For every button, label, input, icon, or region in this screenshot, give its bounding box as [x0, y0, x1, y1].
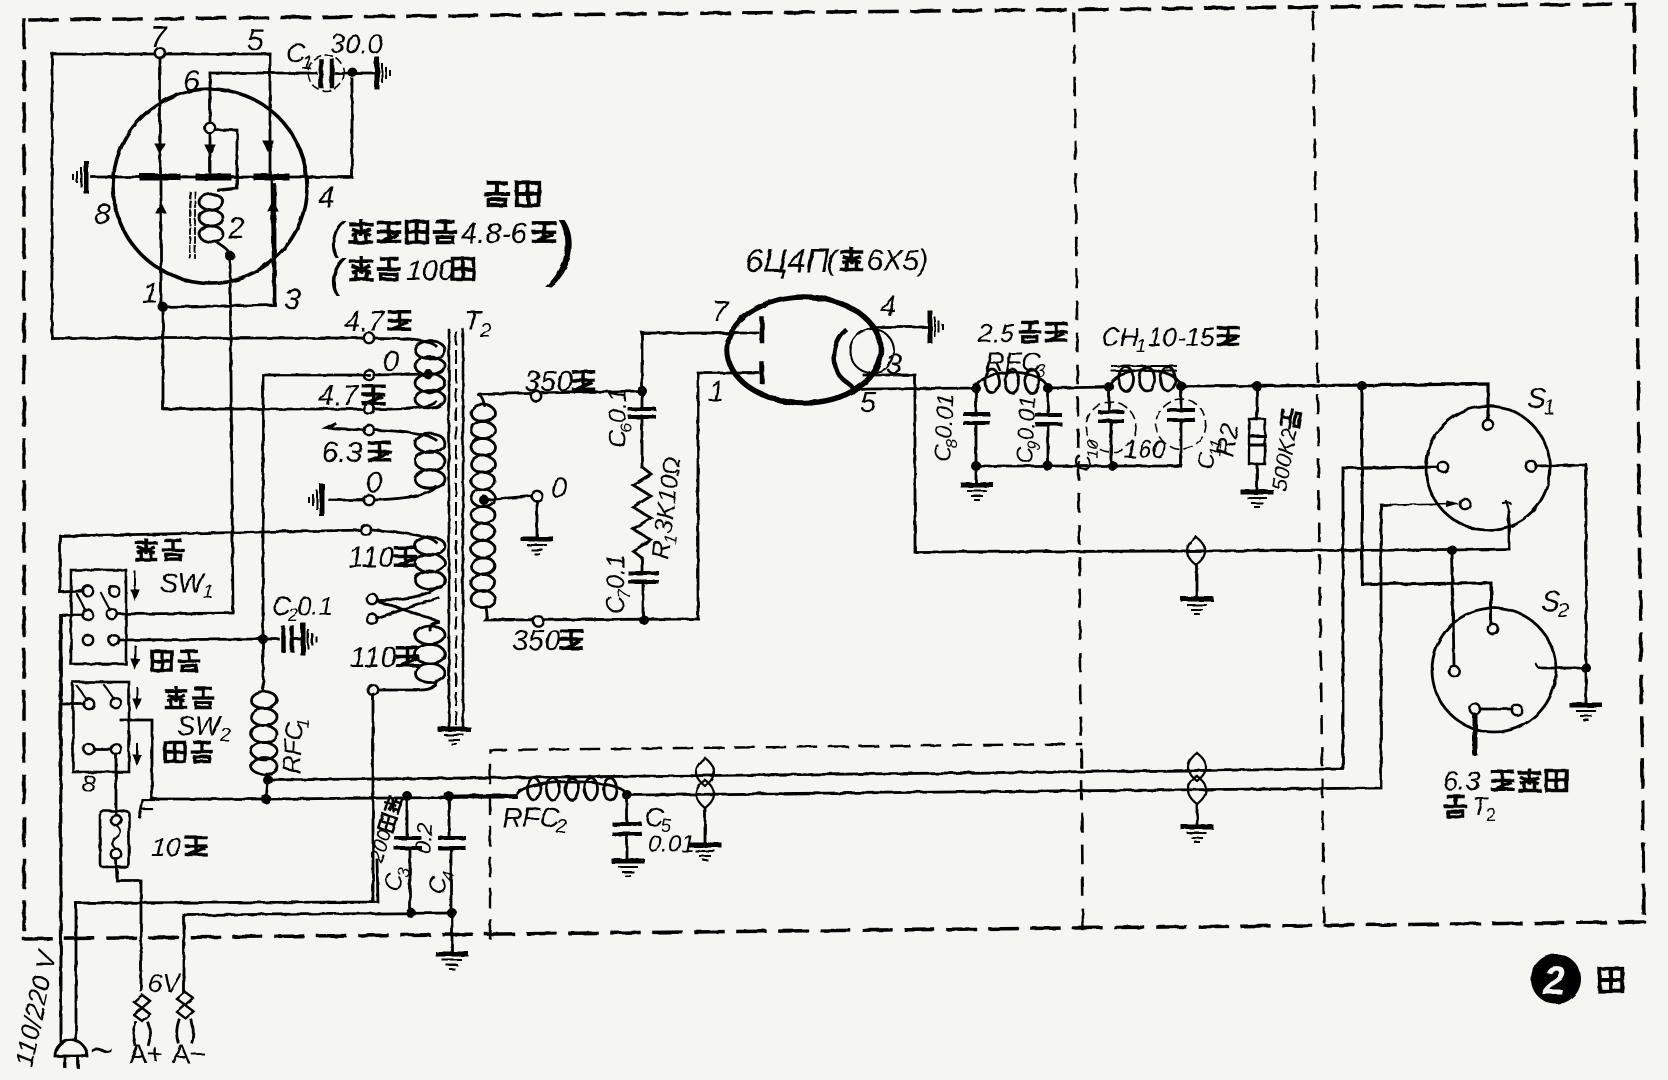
- wire mains to plug: [75, 903, 78, 1042]
- svg-text:SW: SW: [177, 711, 223, 741]
- svg-text:4: 4: [880, 291, 896, 323]
- transformer T2 winding 110V-110V with crossover: [361, 525, 371, 535]
- svg-text:A−: A−: [172, 1039, 206, 1069]
- label SW2 block: [166, 687, 212, 707]
- svg-text:110: 110: [350, 642, 396, 674]
- svg-text:4.8-6: 4.8-6: [461, 218, 528, 250]
- ground (C5): [614, 861, 642, 876]
- svg-text:A+: A+: [129, 1039, 163, 1069]
- ground (C1): [377, 59, 390, 87]
- label RFC2: [502, 802, 567, 838]
- capacitor C5 0.01: [626, 795, 629, 824]
- label vibrator note line2: [330, 252, 473, 296]
- svg-text:110: 110: [348, 542, 394, 574]
- svg-text:1: 1: [1136, 336, 1146, 356]
- label C4: [423, 867, 458, 896]
- svg-text:0: 0: [366, 467, 382, 499]
- battery terminal A+: [134, 995, 150, 1021]
- svg-text:0.2: 0.2: [410, 822, 438, 855]
- shield enclosure dashed box: [490, 744, 1081, 938]
- wire tube pin 4 to ground: [871, 326, 926, 329]
- svg-text:100: 100: [406, 255, 454, 287]
- page badge: [1531, 954, 1581, 1004]
- svg-text:4: 4: [318, 181, 335, 214]
- vibrator U1 socket outline: [52, 54, 270, 338]
- capacitor C7 0.1: [641, 558, 644, 573]
- wire B+ to S1 top pin: [1257, 384, 1488, 420]
- svg-text:2: 2: [1542, 959, 1565, 1003]
- label 110V: [348, 542, 416, 574]
- label 110/220V: [9, 946, 63, 1069]
- wire pin 2 down to SW1: [225, 251, 235, 261]
- svg-text:Ω: Ω: [656, 455, 686, 477]
- label vibrator name: [486, 183, 539, 205]
- label RFC3 value: [977, 318, 1066, 348]
- ground (feedthrough pair right): [1183, 827, 1211, 842]
- svg-text:350: 350: [524, 366, 572, 398]
- svg-text:2: 2: [227, 212, 245, 245]
- svg-text:1: 1: [142, 277, 159, 310]
- vibrator U1 reed arm pin 6: [209, 73, 212, 123]
- label C6: [604, 388, 636, 448]
- vibrator coil core: [190, 192, 195, 258]
- wire S1 pin connections: [1343, 467, 1438, 468]
- label 4.7V top: [344, 306, 410, 338]
- transformer T2 core: [448, 330, 451, 727]
- svg-text:3: 3: [284, 283, 301, 316]
- label tube type: [745, 242, 928, 279]
- svg-text:0.01: 0.01: [930, 393, 958, 439]
- capacitor C4 0.2: [448, 796, 451, 838]
- svg-text:6.3: 6.3: [322, 437, 362, 469]
- svg-text:3: 3: [886, 349, 902, 381]
- label 6.3V coil: [1443, 766, 1567, 796]
- svg-text:0.01: 0.01: [1012, 395, 1040, 441]
- section divider dashed line 1: [1074, 14, 1083, 925]
- svg-text:1: 1: [708, 376, 724, 408]
- label vibrator note line1: [330, 208, 576, 288]
- ground (C4): [438, 954, 466, 969]
- ground (S2 right pin): [1572, 705, 1600, 720]
- ground (pin 8): [73, 163, 86, 191]
- resistor R1 3K 10W: [633, 467, 651, 558]
- wire 350V bottom to tube pin 1: [698, 373, 758, 619]
- svg-text:6.3: 6.3: [1443, 766, 1481, 796]
- label C9: [1011, 395, 1046, 464]
- svg-text:7: 7: [150, 21, 168, 54]
- label C10: [1069, 438, 1103, 472]
- label RFC3: [985, 347, 1046, 382]
- vibrator U1 contact bars: [143, 174, 177, 181]
- svg-text:8: 8: [94, 198, 111, 231]
- svg-text:4.7: 4.7: [318, 380, 360, 412]
- ground (secondary center tap 0): [523, 539, 551, 554]
- svg-text:2: 2: [219, 725, 231, 746]
- socket S2: [1432, 608, 1556, 732]
- transformer T2 secondary winding 350V-0-350V: [471, 405, 495, 422]
- inductor RFC1: [262, 639, 265, 690]
- svg-text:6V: 6V: [148, 968, 182, 998]
- switch SW1 (AC/DC): [71, 570, 126, 664]
- svg-text:7: 7: [712, 296, 730, 328]
- wire 350V top to tube pin 7: [637, 386, 647, 396]
- fuse F 10A: [115, 754, 118, 815]
- svg-text:10: 10: [1084, 440, 1102, 459]
- svg-text:6: 6: [617, 423, 636, 433]
- section divider dashed line 2: [1313, 12, 1324, 922]
- vibrator U1 reed arm pin 5/3: [263, 141, 273, 151]
- label S2: [1541, 586, 1569, 622]
- label RFC1: [278, 717, 313, 774]
- svg-text:7: 7: [615, 589, 634, 599]
- capacitor C6 0.1: [641, 391, 644, 409]
- svg-text:1: 1: [293, 718, 312, 728]
- transformer T2 winding 4.7V-0-4.7V: [364, 333, 374, 343]
- transformer T2 winding 6.3V-0: [364, 425, 374, 435]
- wire RFC1 junction to S1 left pin: [268, 468, 1343, 780]
- svg-text:0.1: 0.1: [297, 591, 333, 621]
- svg-text:SW: SW: [160, 568, 206, 598]
- vibrator U1 reed arm pin 7/1: [159, 54, 162, 172]
- label C8: [929, 393, 964, 462]
- svg-text:2: 2: [479, 320, 491, 342]
- svg-text:8: 8: [82, 771, 96, 798]
- svg-text:2: 2: [555, 816, 567, 838]
- capacitor C9 0.01: [1047, 388, 1050, 415]
- label C3: [379, 864, 414, 894]
- label C11: [1192, 438, 1226, 471]
- svg-text:1: 1: [203, 582, 214, 603]
- wire vibrator rect to 4.7V top terminal: [52, 337, 365, 340]
- ground (C8): [963, 485, 991, 500]
- ground (R2): [1243, 492, 1271, 507]
- inductor RFC3 2.5mH: [971, 383, 981, 393]
- svg-text:0.1: 0.1: [602, 554, 630, 589]
- label SW1 block: [136, 539, 182, 559]
- svg-text:2: 2: [1557, 600, 1569, 622]
- feedthrough capacitors: [696, 758, 714, 786]
- label T2: [464, 305, 491, 342]
- label C2: [272, 591, 333, 625]
- mains plug 110/220V: [55, 1040, 87, 1056]
- ground (6.3V winding 0): [309, 486, 322, 514]
- svg-text:6X5): 6X5): [867, 245, 928, 277]
- svg-text:0: 0: [551, 473, 567, 505]
- ground (T2 core): [440, 729, 468, 744]
- choke CH1 10-15H: [1104, 382, 1114, 392]
- tube pin labels: [708, 291, 902, 419]
- svg-text:0: 0: [383, 346, 399, 378]
- label S1: [1527, 383, 1555, 419]
- label C7: [602, 554, 634, 614]
- svg-text:RFC: RFC: [985, 347, 1041, 377]
- label R1: [646, 455, 690, 561]
- label R2: [1209, 421, 1244, 459]
- capacitor C10 160uF electrolytic: [1108, 387, 1111, 412]
- wire SW2 to S1 bottom-left pin: [266, 797, 516, 799]
- capacitor C11 160uF electrolytic: [1180, 386, 1183, 410]
- switch SW2 (AC/DC): [73, 682, 129, 772]
- label 4.7V bottom: [318, 380, 384, 412]
- ground (feedthrough): [1183, 599, 1211, 614]
- inductor RFC2: [452, 795, 516, 796]
- wire bottom return lines: [76, 860, 378, 903]
- svg-text:R2: R2: [1209, 421, 1244, 459]
- ground (C2): [303, 625, 316, 653]
- label 6.3V: [322, 437, 390, 469]
- battery terminal A-: [183, 915, 186, 992]
- wire tube pin 5 B+ output: [850, 388, 976, 391]
- label C5: [645, 802, 695, 858]
- svg-text:3: 3: [1035, 361, 1046, 382]
- wire SW1 to 110V terminal: [60, 530, 366, 536]
- svg-text:1: 1: [302, 53, 313, 74]
- SW toggle arrows: [131, 572, 141, 765]
- ground (tube pin 4): [930, 313, 943, 341]
- capacitor C3 200uF electrolytic: [402, 791, 412, 801]
- rectifier tube V1 6Ts4P envelope: [727, 297, 881, 403]
- node pin 7 terminal: [155, 48, 165, 58]
- socket S1: [1426, 406, 1550, 530]
- label CH1: [1101, 322, 1238, 356]
- capacitor C8 0.01: [975, 388, 978, 414]
- wire tube pin 3 down: [864, 375, 915, 552]
- wire pin6 to vibrator coil: [215, 130, 237, 190]
- wire pin 6 to C1: [210, 72, 316, 75]
- wire filter bottom rail: [976, 465, 1181, 468]
- resistor R2 500K 2W: [1252, 381, 1262, 391]
- svg-text:2.5: 2.5: [977, 318, 1015, 348]
- label 110V b: [350, 642, 418, 674]
- vibrator coil winding: [199, 194, 223, 210]
- label 350V bottom: [512, 625, 582, 657]
- svg-text:4.7: 4.7: [344, 306, 386, 338]
- svg-text:10: 10: [151, 832, 181, 862]
- svg-text:0.01: 0.01: [648, 831, 695, 858]
- wire pin 1 to 4.7V tap: [158, 302, 168, 312]
- wire B+ branch to S2 top pin: [1362, 386, 1491, 622]
- node pin 6 terminal: [205, 123, 215, 133]
- svg-text:F: F: [137, 793, 156, 824]
- label 350V top: [524, 366, 594, 398]
- svg-text:10-15: 10-15: [1148, 322, 1215, 352]
- svg-text:30.0: 30.0: [330, 29, 383, 59]
- svg-text:1: 1: [1544, 397, 1555, 419]
- svg-text:RFC: RFC: [502, 802, 560, 833]
- svg-text:5: 5: [860, 387, 877, 419]
- vibrator U1 (ZhenZi) envelope: [113, 89, 307, 283]
- capacitor C2 0.1: [263, 638, 278, 641]
- capacitor C1 30.0uF electrolytic: [321, 61, 332, 86]
- wire 4.7V winding 0 tap down to C2 junction: [263, 375, 369, 639]
- svg-text:5: 5: [247, 24, 264, 57]
- svg-text:2: 2: [1486, 805, 1496, 825]
- svg-text:9: 9: [1026, 441, 1043, 451]
- svg-text:0.1: 0.1: [604, 388, 632, 423]
- svg-text:6Ц4П: 6Ц4П: [745, 242, 830, 279]
- ground (feedthrough pair): [691, 845, 719, 860]
- wire tube pin 3 to S1/S2: [915, 549, 1509, 552]
- svg-text:8: 8: [944, 439, 961, 449]
- svg-text:160: 160: [1124, 436, 1166, 464]
- svg-text:350: 350: [512, 625, 560, 657]
- svg-text:6: 6: [183, 65, 200, 98]
- svg-text:~: ~: [90, 1029, 113, 1073]
- label R2 value: [1266, 408, 1305, 493]
- wire vibrator contact row to pin 4: [92, 176, 143, 179]
- svg-text:CH: CH: [1101, 322, 1139, 352]
